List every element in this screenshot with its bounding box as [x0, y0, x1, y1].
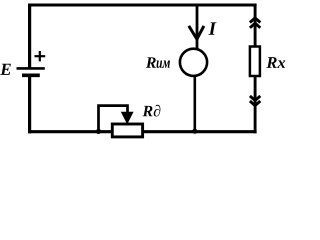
- label Rим: [146, 57, 170, 68]
- rheostat wiper wire: [99, 106, 128, 132]
- wire top: [28, 4, 256, 7]
- battery E long plate: [17, 67, 45, 70]
- label E: [0, 64, 11, 75]
- wire right lower (Rx to bottom-right corner): [254, 76, 257, 133]
- wire middle branch upper (top wire to meter): [196, 4, 199, 51]
- rheostat wiper arrowhead: [121, 112, 134, 125]
- double chevron up (terminal marker): [250, 18, 260, 28]
- double chevron down (terminal marker): [250, 96, 260, 106]
- label + (battery polarity): [35, 51, 46, 61]
- resistor Rx: [250, 47, 260, 77]
- label R0: [142, 105, 160, 117]
- current arrow I: [189, 26, 204, 39]
- battery E short plate: [22, 73, 40, 77]
- junction dot wiper-bottom: [96, 129, 101, 134]
- wire left lower (battery to bottom-left corner): [28, 75, 31, 133]
- rheostat R0 body: [112, 124, 142, 137]
- junction dot middle-bottom: [192, 129, 197, 134]
- label Rx: [266, 57, 285, 68]
- label I: [208, 22, 216, 34]
- wire right upper (top-right corner down to Rx): [254, 4, 257, 47]
- wire middle branch lower (meter to bottom wire): [194, 75, 197, 132]
- op meter circle U1 (Rим): [180, 49, 207, 76]
- wire bottom: [28, 130, 257, 133]
- wire left upper (top-left corner to battery): [28, 4, 31, 69]
